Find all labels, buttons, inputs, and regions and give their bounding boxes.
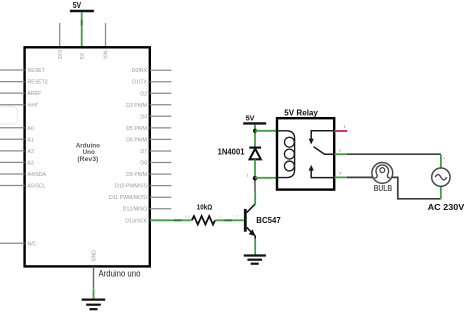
svg-text:AREF: AREF	[28, 91, 42, 97]
wire resistor to base	[215, 219, 244, 221]
svg-text:BULB: BULB	[374, 184, 393, 193]
svg-text:5V: 5V	[80, 52, 86, 59]
svg-text:5V: 5V	[73, 1, 82, 10]
svg-text:1: 1	[247, 174, 249, 178]
svg-text:A3: A3	[28, 160, 34, 166]
diode D1 1N4001	[218, 147, 261, 159]
Arduino Uno box U1	[25, 47, 150, 266]
wire diode to junction	[254, 159, 256, 177]
svg-text:D4: D4	[140, 114, 147, 120]
ground (emitter)	[244, 256, 266, 264]
svg-text:10kΩ: 10kΩ	[197, 202, 212, 211]
bulb L1	[372, 163, 393, 194]
svg-text:2: 2	[339, 148, 341, 152]
svg-text:RESET: RESET	[28, 68, 46, 74]
svg-text:A1: A1	[28, 137, 34, 143]
wire 5V down	[254, 125, 256, 148]
faint cropped part at left edge	[0, 107, 18, 125]
relay K1 box	[277, 118, 334, 189]
svg-text:1: 1	[219, 215, 221, 219]
wire emitter to ground	[254, 239, 256, 256]
wire relay common to bulb	[347, 176, 373, 178]
svg-text:D9 PWM: D9 PWM	[126, 172, 147, 178]
svg-text:Arduino uno: Arduino uno	[99, 268, 141, 278]
relay coil	[278, 131, 295, 178]
pin VIN stub	[105, 23, 107, 47]
svg-text:D5 PWM: D5 PWM	[126, 126, 147, 132]
svg-text:D10 PWM/SS: D10 PWM/SS	[115, 184, 148, 190]
svg-text:N/C: N/C	[28, 241, 37, 247]
svg-text:VIN: VIN	[104, 50, 110, 59]
wire bulb to AC bottom	[392, 177, 441, 198]
Arduino center label	[76, 142, 100, 163]
wire collector up	[254, 190, 256, 204]
top pin labels	[58, 50, 110, 262]
node 5V junction	[253, 129, 257, 133]
right pins	[150, 70, 172, 209]
relay switch contacts	[309, 131, 334, 178]
ground (Arduino)	[82, 300, 106, 310]
svg-text:5V: 5V	[246, 113, 256, 122]
svg-text:A2: A2	[28, 149, 34, 155]
svg-text:1 2: 1 2	[184, 215, 189, 219]
svg-text:1: 1	[344, 125, 346, 129]
svg-text:D0/RX: D0/RX	[132, 68, 148, 74]
power symbol 5V (relay)	[243, 113, 266, 123]
svg-text:D1/TX: D1/TX	[132, 80, 147, 86]
transistor Q1 BC547	[244, 198, 281, 241]
resistor R1 10k	[192, 202, 215, 224]
svg-text:(Rev3): (Rev3)	[77, 156, 98, 163]
svg-text:D2: D2	[140, 91, 147, 97]
svg-text:2: 2	[236, 215, 238, 219]
wire D13 to resistor	[150, 219, 192, 221]
svg-text:A5/SCL: A5/SCL	[28, 184, 46, 190]
power symbol 5V (Arduino)	[70, 1, 94, 11]
svg-text:D6 PWM: D6 PWM	[126, 137, 147, 143]
pin 3V3 stub	[59, 23, 61, 47]
svg-text:D13/SCK: D13/SCK	[125, 218, 147, 224]
svg-text:D8: D8	[140, 161, 147, 167]
svg-text:GND: GND	[91, 250, 97, 262]
AC source V1	[428, 168, 465, 212]
GND pin stub	[93, 266, 95, 288]
svg-text:A0: A0	[28, 126, 34, 132]
svg-text:3V3: 3V3	[58, 50, 64, 59]
svg-text:D12/MISO: D12/MISO	[123, 207, 147, 213]
wire GND to ground	[93, 289, 95, 300]
svg-text:5V Relay: 5V Relay	[284, 108, 318, 117]
svg-text:RESET2: RESET2	[28, 80, 48, 86]
svg-text:1N4001: 1N4001	[218, 147, 245, 156]
svg-text:ioref: ioref	[28, 103, 39, 109]
wire junction to relay coil bottom	[255, 177, 279, 179]
node collector junction	[253, 176, 258, 181]
svg-text:4: 4	[339, 172, 341, 176]
svg-text:D11 PWM/MOSI: D11 PWM/MOSI	[109, 195, 147, 201]
left pins	[0, 70, 25, 243]
svg-text:BC547: BC547	[256, 216, 281, 225]
svg-text:A4/SDA: A4/SDA	[28, 172, 47, 178]
wire 5V to Arduino	[81, 12, 83, 47]
svg-text:AC 230V: AC 230V	[428, 202, 465, 212]
svg-text:D3 PWM: D3 PWM	[126, 103, 147, 109]
wire relay NO to AC	[347, 153, 441, 155]
relay pin stubs right	[334, 130, 347, 132]
svg-text:D7: D7	[140, 149, 147, 155]
wire junction to relay coil top	[255, 130, 279, 132]
